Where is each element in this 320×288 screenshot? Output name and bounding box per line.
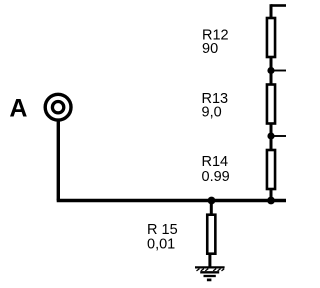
svg-text:0,01: 0,01	[147, 237, 175, 253]
svg-text:90: 90	[202, 41, 218, 57]
svg-text:R14: R14	[202, 154, 229, 170]
svg-text:A: A	[9, 95, 27, 123]
svg-text:9,0: 9,0	[202, 105, 222, 121]
svg-text:0.99: 0.99	[202, 169, 230, 185]
